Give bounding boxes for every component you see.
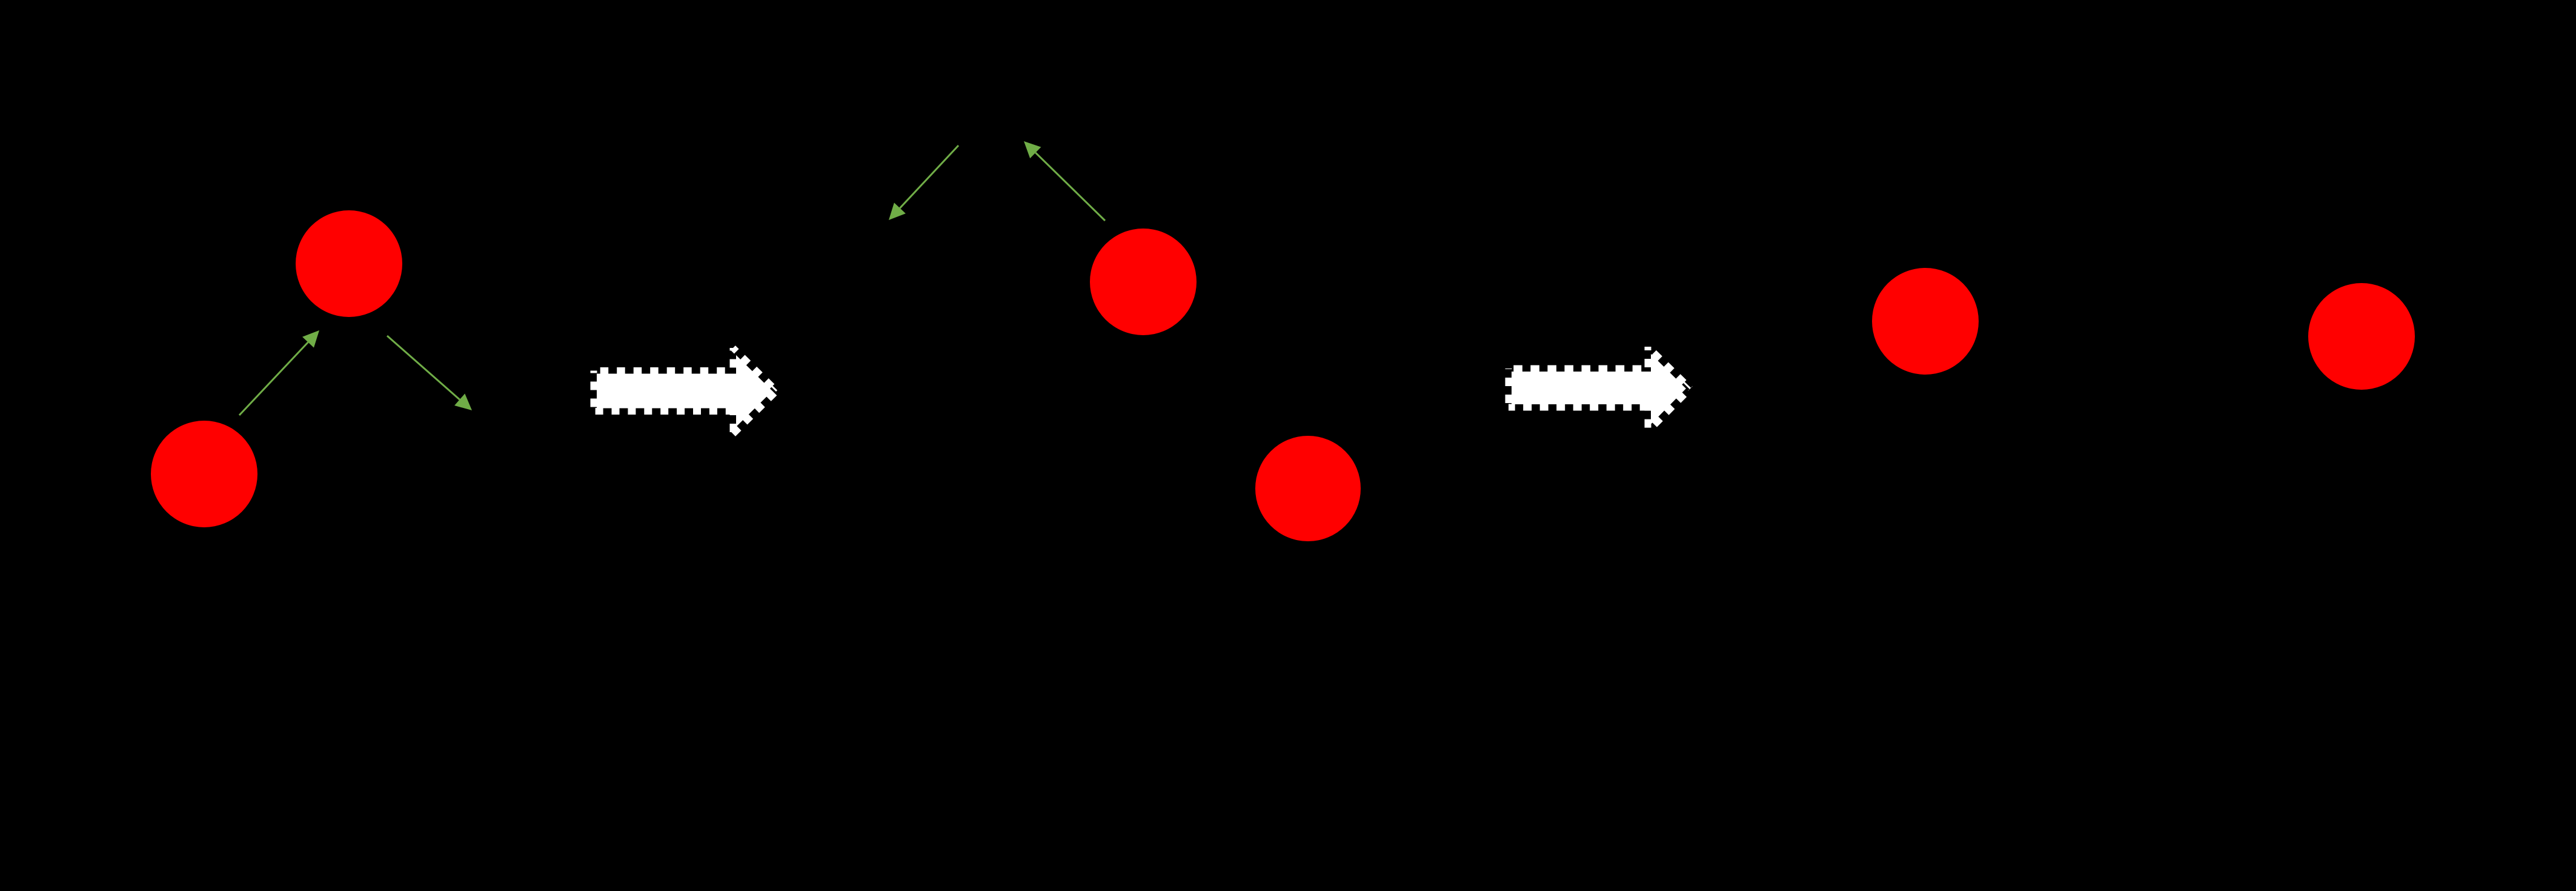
green arrow G3 (down-left from apex)	[889, 145, 958, 220]
red ball E (right upper)	[1872, 268, 1979, 375]
red ball D (middle lower)	[1255, 436, 1361, 541]
red ball C (middle, after apex)	[1090, 229, 1197, 335]
green arrow G2 (down-right from ball A)	[387, 336, 472, 410]
red ball A (top of first bounce)	[296, 210, 402, 317]
red ball F (far right)	[2308, 283, 2415, 390]
green arrow G1 (up-right from ball B toward ball A)	[239, 330, 319, 415]
white dashed block arrow W1	[594, 348, 777, 434]
white dashed block arrow W2	[1509, 347, 1690, 432]
green arrow G4 (up-left from ball C toward apex)	[1024, 141, 1105, 221]
red ball B (lower-left start)	[151, 421, 257, 527]
